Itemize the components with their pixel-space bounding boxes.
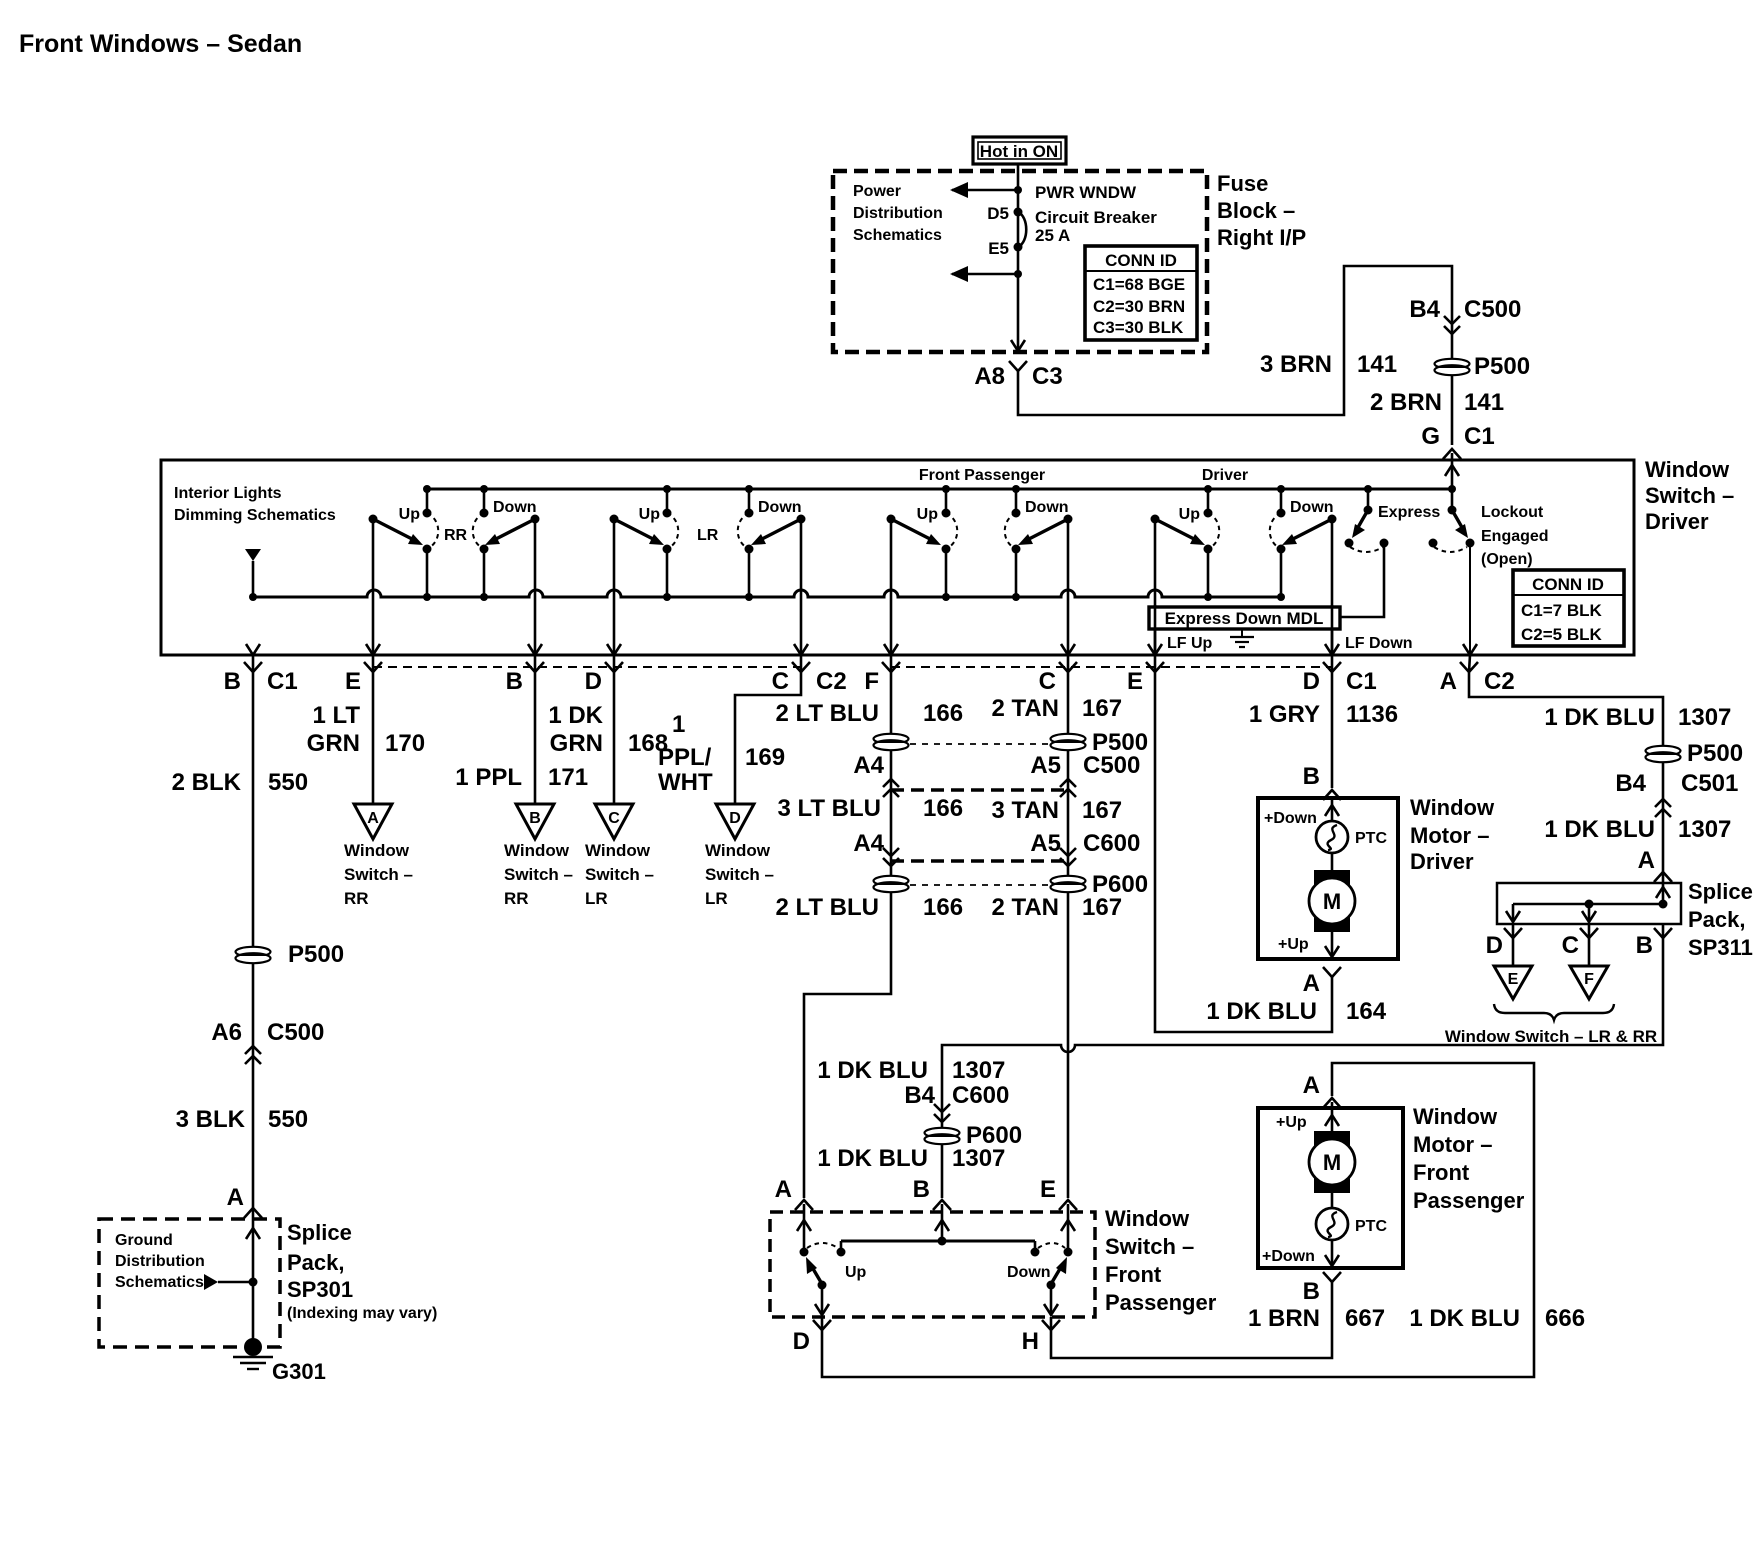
- svg-text:171: 171: [548, 764, 588, 791]
- switch Up front passenger: [812, 1267, 822, 1284]
- CONN ID box fuse block: [1085, 246, 1197, 340]
- svg-text:G301: G301: [272, 1359, 326, 1384]
- svg-text:C2: C2: [816, 668, 847, 695]
- svg-text:A5: A5: [1030, 752, 1061, 779]
- svg-text:3 LT BLU: 3 LT BLU: [777, 795, 881, 822]
- switch Driver Down: [1270, 489, 1337, 655]
- ground G301: [233, 1338, 326, 1384]
- svg-text:Window: Window: [1410, 795, 1495, 820]
- window switch driver box: [161, 460, 1634, 655]
- svg-text:PTC: PTC: [1355, 830, 1387, 847]
- svg-text:167: 167: [1082, 797, 1122, 824]
- inline connector P500 front passenger feed: [874, 734, 909, 750]
- svg-text:Interior Lights: Interior Lights: [174, 485, 282, 502]
- wire A8 C3 to fuse block right wire 3 BRN 141: [1018, 266, 1452, 445]
- svg-text:P500: P500: [1687, 740, 1743, 767]
- svg-text:Down: Down: [758, 499, 802, 516]
- svg-text:Window: Window: [504, 841, 570, 860]
- switch bus front passenger: [841, 1240, 1035, 1243]
- pin E driver: [1154, 655, 1157, 672]
- dimming feed triangle: [245, 549, 261, 561]
- svg-text:B4: B4: [1615, 770, 1646, 797]
- svg-text:Switch –: Switch –: [585, 865, 654, 884]
- svg-text:1: 1: [672, 711, 685, 738]
- switch Front Passenger Up: [887, 489, 958, 655]
- svg-text:C500: C500: [267, 1019, 324, 1046]
- splice pack SP311 internals: [1506, 887, 1670, 922]
- svg-text:C501: C501: [1681, 770, 1738, 797]
- svg-text:1 DK BLU: 1 DK BLU: [1409, 1305, 1520, 1332]
- svg-text:E: E: [1508, 971, 1519, 988]
- svg-text:Front Windows – Sedan: Front Windows – Sedan: [19, 30, 302, 58]
- svg-text:LR: LR: [705, 889, 728, 908]
- svg-text:C2=5 BLK: C2=5 BLK: [1521, 625, 1602, 644]
- svg-text:Driver: Driver: [1645, 509, 1709, 534]
- svg-text:B: B: [529, 810, 541, 827]
- svg-text:C: C: [608, 810, 620, 827]
- svg-text:M: M: [1323, 889, 1341, 914]
- svg-text:C2=30 BRN: C2=30 BRN: [1093, 297, 1185, 316]
- svg-text:PWR WNDW: PWR WNDW: [1035, 183, 1137, 202]
- svg-text:D: D: [793, 1328, 810, 1355]
- svg-text:CONN ID: CONN ID: [1105, 251, 1177, 270]
- svg-text:1 DK BLU: 1 DK BLU: [817, 1057, 928, 1084]
- svg-text:Down: Down: [1290, 499, 1334, 516]
- svg-text:C2: C2: [1484, 668, 1515, 695]
- inline connector P600 tan wire: [1051, 876, 1086, 892]
- svg-text:1 DK BLU: 1 DK BLU: [1544, 704, 1655, 731]
- svg-text:Circuit Breaker: Circuit Breaker: [1035, 208, 1157, 227]
- ground symbol under MDL: [1230, 629, 1254, 647]
- svg-text:167: 167: [1082, 894, 1122, 921]
- triangle A window switch RR: [354, 804, 392, 839]
- switch LR Down: [738, 489, 806, 655]
- svg-text:1 DK: 1 DK: [548, 702, 603, 729]
- svg-text:1307: 1307: [1678, 816, 1731, 843]
- svg-text:A4: A4: [853, 752, 884, 779]
- svg-text:GRN: GRN: [307, 730, 360, 757]
- svg-text:Up: Up: [399, 506, 421, 523]
- motor M driver: [1314, 870, 1350, 932]
- wire B C1 ground lead 2 BLK 550: [252, 672, 255, 1347]
- svg-text:2 TAN: 2 TAN: [991, 695, 1059, 722]
- svg-text:Window: Window: [705, 841, 771, 860]
- svg-text:C600: C600: [952, 1082, 1009, 1109]
- wire E to window switch RR A: [372, 672, 375, 804]
- svg-text:Passenger: Passenger: [1413, 1188, 1525, 1213]
- svg-text:1 LT: 1 LT: [312, 702, 360, 729]
- svg-text:1 PPL: 1 PPL: [455, 764, 522, 791]
- svg-text:M: M: [1323, 1150, 1341, 1175]
- ground distribution dashed box SP301: [99, 1219, 280, 1347]
- svg-text:D: D: [1486, 932, 1503, 959]
- CONN ID box driver switch: [1513, 570, 1624, 646]
- circuit breaker PWR WNDW 25A: [987, 183, 1157, 258]
- svg-text:Motor –: Motor –: [1410, 823, 1489, 848]
- svg-text:C1=68 BGE: C1=68 BGE: [1093, 275, 1185, 294]
- svg-text:B: B: [506, 668, 523, 695]
- svg-text:Distribution: Distribution: [853, 205, 943, 222]
- svg-text:Switch –: Switch –: [344, 865, 413, 884]
- pin C SP311: [1588, 924, 1591, 938]
- svg-text:141: 141: [1464, 389, 1504, 416]
- switch LR Up: [610, 489, 679, 655]
- svg-text:Ground: Ground: [115, 1232, 173, 1249]
- svg-text:Block –: Block –: [1217, 198, 1295, 223]
- svg-text:1 DK BLU: 1 DK BLU: [1544, 816, 1655, 843]
- svg-text:Switch –: Switch –: [1645, 483, 1734, 508]
- svg-text:F: F: [864, 668, 879, 695]
- svg-text:+Up: +Up: [1276, 1114, 1307, 1131]
- pin C: [1067, 655, 1070, 672]
- PTC driver motor: [1316, 821, 1348, 853]
- switch RR Up: [369, 489, 439, 655]
- window motor front passenger box: [1258, 1108, 1403, 1268]
- svg-text:Down: Down: [493, 499, 537, 516]
- inline connector P500 ground lead: [236, 947, 271, 963]
- svg-text:1307: 1307: [952, 1057, 1005, 1084]
- svg-text:2 TAN: 2 TAN: [991, 894, 1059, 921]
- pin D C1: [1331, 655, 1334, 672]
- pin A C2: [1469, 655, 1470, 672]
- svg-text:550: 550: [268, 1106, 308, 1133]
- pin D front passenger switch: [821, 1317, 824, 1330]
- svg-text:Distribution: Distribution: [115, 1253, 205, 1270]
- wire C C2 to window switch LR D 1 PPL/WHT 169: [735, 672, 801, 804]
- pin H front passenger switch: [1050, 1317, 1053, 1330]
- wire power feed from Hot in ON: [1017, 164, 1020, 349]
- pin D SP311: [1512, 924, 1515, 938]
- svg-text:F: F: [1584, 971, 1594, 988]
- svg-text:LR: LR: [697, 527, 719, 544]
- svg-text:C3: C3: [1032, 363, 1063, 390]
- svg-text:Splice: Splice: [287, 1220, 352, 1245]
- svg-text:Window: Window: [1105, 1206, 1190, 1231]
- motor M front passenger: [1314, 1131, 1350, 1193]
- svg-text:1 GRY: 1 GRY: [1249, 701, 1320, 728]
- inline connector P600 dk blu: [925, 1128, 960, 1144]
- svg-text:666: 666: [1545, 1305, 1585, 1332]
- wire D C1 to window motor driver B 1 GRY 1136: [1331, 672, 1334, 788]
- wire C to front passenger switch E 2 TAN 167: [1067, 672, 1070, 1198]
- svg-text:166: 166: [923, 700, 963, 727]
- svg-text:Front: Front: [1105, 1262, 1162, 1287]
- svg-text:P500: P500: [288, 941, 344, 968]
- triangle D window switch LR: [716, 804, 754, 839]
- pin E: [372, 655, 375, 672]
- svg-text:C: C: [1039, 668, 1056, 695]
- svg-text:Window: Window: [344, 841, 410, 860]
- svg-text:+Down: +Down: [1262, 1248, 1315, 1265]
- pin B motor front passenger: [1323, 1272, 1341, 1282]
- inline connector P500 main feed: [1435, 359, 1470, 375]
- svg-text:Driver: Driver: [1410, 849, 1474, 874]
- pin exit arrows at box bottom: [246, 644, 260, 655]
- PTC front passenger motor: [1316, 1208, 1348, 1240]
- svg-text:169: 169: [745, 744, 785, 771]
- wire arrow to power distribution top: [952, 189, 1018, 192]
- switch Front Passenger Down: [1005, 489, 1073, 655]
- svg-text:Up: Up: [845, 1264, 867, 1281]
- svg-text:+Down: +Down: [1264, 810, 1317, 827]
- svg-text:Front Passenger: Front Passenger: [919, 467, 1045, 484]
- Hot in ON box: [973, 137, 1066, 164]
- wire E driver to window motor driver A: [1155, 672, 1332, 1032]
- svg-text:3 BRN: 3 BRN: [1260, 351, 1332, 378]
- svg-text:C1: C1: [1346, 668, 1377, 695]
- switch Express: [1340, 489, 1440, 617]
- pin F: [890, 655, 893, 672]
- connector dashed line C1 group: [891, 666, 1332, 668]
- svg-text:Up: Up: [917, 506, 939, 523]
- switch RR Down: [473, 489, 540, 655]
- svg-text:Express: Express: [1378, 504, 1440, 521]
- svg-text:C1: C1: [1464, 423, 1495, 450]
- brace window switch LR and RR: [1494, 1004, 1614, 1020]
- inline connector P500 dk blu: [1646, 746, 1681, 762]
- svg-text:1136: 1136: [1346, 701, 1398, 728]
- arrow exit fuse block: [1011, 340, 1025, 351]
- svg-text:3 BLK: 3 BLK: [176, 1106, 246, 1133]
- svg-text:Lockout: Lockout: [1481, 504, 1544, 521]
- svg-text:PTC: PTC: [1355, 1218, 1387, 1235]
- svg-text:166: 166: [923, 894, 963, 921]
- svg-text:Dimming Schematics: Dimming Schematics: [174, 507, 336, 524]
- svg-text:Express Down MDL: Express Down MDL: [1165, 609, 1324, 628]
- switch Driver Up: [1151, 489, 1220, 655]
- svg-text:C1=7 BLK: C1=7 BLK: [1521, 601, 1602, 620]
- svg-text:Power: Power: [853, 183, 901, 200]
- svg-text:Down: Down: [1007, 1264, 1051, 1281]
- svg-text:2 LT BLU: 2 LT BLU: [775, 700, 879, 727]
- svg-text:Motor –: Motor –: [1413, 1132, 1492, 1157]
- svg-text:Passenger: Passenger: [1105, 1290, 1217, 1315]
- svg-text:1307: 1307: [952, 1145, 1005, 1172]
- svg-text:D: D: [1303, 668, 1320, 695]
- wire H to window motor front passenger B 1 BRN 667: [1051, 1282, 1332, 1358]
- wire B to window switch RR B 1 PPL 171: [534, 672, 537, 804]
- svg-text:RR: RR: [444, 527, 468, 544]
- top power bus: [427, 488, 1452, 491]
- Express Down MDL module box: [1149, 607, 1340, 629]
- switch Lockout Engaged (Open): [1429, 489, 1549, 655]
- svg-text:B: B: [1303, 1278, 1320, 1305]
- svg-text:E5: E5: [988, 239, 1009, 258]
- wire LF Down through MDL: [1331, 605, 1334, 655]
- svg-text:B: B: [1636, 932, 1653, 959]
- svg-text:1 BRN: 1 BRN: [1248, 1305, 1320, 1332]
- svg-text:Switch –: Switch –: [705, 865, 774, 884]
- svg-text:164: 164: [1346, 998, 1387, 1025]
- svg-text:Engaged: Engaged: [1481, 528, 1549, 545]
- pin C C2: [800, 655, 803, 672]
- svg-text:B: B: [224, 668, 241, 695]
- triangle C window switch LR: [595, 804, 633, 839]
- svg-text:A: A: [227, 1184, 244, 1211]
- switch Down front passenger: [1051, 1267, 1061, 1284]
- svg-text:Right I/P: Right I/P: [1217, 225, 1306, 250]
- svg-text:C: C: [772, 668, 789, 695]
- connector dashed line C2 group: [373, 666, 801, 668]
- svg-text:C: C: [1562, 932, 1579, 959]
- svg-text:Switch –: Switch –: [1105, 1234, 1194, 1259]
- svg-text:Window Switch – LR & RR: Window Switch – LR & RR: [1445, 1027, 1657, 1046]
- svg-text:Switch –: Switch –: [504, 865, 573, 884]
- svg-text:C600: C600: [1083, 830, 1140, 857]
- svg-text:167: 167: [1082, 695, 1122, 722]
- splice pack SP311 box: [1497, 883, 1681, 924]
- svg-text:A6: A6: [211, 1019, 242, 1046]
- svg-text:GRN: GRN: [550, 730, 603, 757]
- svg-text:141: 141: [1357, 351, 1397, 378]
- svg-text:PPL/: PPL/: [658, 744, 712, 771]
- svg-text:Up: Up: [639, 506, 661, 523]
- svg-text:170: 170: [385, 730, 425, 757]
- svg-text:Fuse: Fuse: [1217, 171, 1268, 196]
- motor driver internals: [1264, 798, 1387, 957]
- svg-text:2 BRN: 2 BRN: [1370, 389, 1442, 416]
- svg-text:Up: Up: [1179, 506, 1201, 523]
- svg-text:A: A: [1440, 668, 1457, 695]
- svg-text:550: 550: [268, 769, 308, 796]
- svg-text:2 BLK: 2 BLK: [172, 769, 242, 796]
- svg-text:CONN ID: CONN ID: [1532, 575, 1604, 594]
- svg-text:C500: C500: [1464, 296, 1521, 323]
- svg-text:1307: 1307: [1678, 704, 1731, 731]
- svg-text:A: A: [367, 810, 379, 827]
- wire A C2 to splice pack SP311: [1469, 672, 1663, 904]
- svg-text:D5: D5: [987, 204, 1009, 223]
- svg-text:Pack,: Pack,: [287, 1250, 345, 1275]
- svg-text:Window: Window: [1645, 457, 1730, 482]
- svg-text:A8: A8: [974, 363, 1005, 390]
- arrow ground distribution tap: [204, 1274, 218, 1290]
- svg-text:SP301: SP301: [287, 1277, 353, 1302]
- svg-text:B: B: [1303, 763, 1320, 790]
- triangle E window switch LR RR: [1512, 938, 1515, 966]
- lower common bus with hops: [253, 590, 1281, 597]
- wire D to window switch LR C 1 DK GRN 168: [613, 672, 616, 804]
- svg-text:C3=30 BLK: C3=30 BLK: [1093, 318, 1184, 337]
- svg-text:B: B: [913, 1176, 930, 1203]
- svg-text:(Open): (Open): [1481, 551, 1533, 568]
- pin B C1: [252, 655, 255, 672]
- triangle F window switch LR RR: [1588, 938, 1591, 966]
- svg-text:SP311: SP311: [1688, 935, 1753, 960]
- svg-text:(Indexing may vary): (Indexing may vary): [287, 1305, 437, 1322]
- svg-text:Schematics: Schematics: [115, 1274, 204, 1291]
- wire D to window motor front passenger A 1 DK BLU 666: [822, 1063, 1534, 1377]
- svg-text:Splice: Splice: [1688, 879, 1753, 904]
- front passenger switch internals: [797, 1204, 1075, 1315]
- triangle B window switch RR: [516, 804, 554, 839]
- svg-text:RR: RR: [344, 889, 369, 908]
- svg-text:Schematics: Schematics: [853, 227, 942, 244]
- svg-text:C1: C1: [267, 668, 298, 695]
- wire LF Up through MDL: [1154, 605, 1157, 655]
- svg-text:166: 166: [923, 795, 963, 822]
- svg-text:Front: Front: [1413, 1160, 1470, 1185]
- svg-text:A: A: [1638, 847, 1655, 874]
- svg-text:B4: B4: [1409, 296, 1440, 323]
- svg-text:LR: LR: [585, 889, 608, 908]
- svg-text:P500: P500: [1474, 353, 1530, 380]
- svg-text:H: H: [1022, 1328, 1039, 1355]
- svg-text:Hot in ON: Hot in ON: [980, 142, 1058, 161]
- pin B SP311: [1662, 924, 1665, 938]
- svg-text:E: E: [345, 668, 361, 695]
- svg-text:D: D: [729, 810, 741, 827]
- svg-text:A4: A4: [853, 830, 884, 857]
- svg-text:Window: Window: [1413, 1104, 1498, 1129]
- svg-text:RR: RR: [504, 889, 529, 908]
- svg-text:A: A: [775, 1176, 792, 1203]
- svg-text:A: A: [1303, 970, 1320, 997]
- svg-text:C500: C500: [1083, 752, 1140, 779]
- svg-text:LF Up: LF Up: [1167, 635, 1213, 652]
- svg-text:E: E: [1127, 668, 1143, 695]
- connector A8 C3: [1009, 361, 1027, 371]
- inline connector P600 front passenger feed: [874, 876, 909, 892]
- svg-text:LF Down: LF Down: [1345, 635, 1413, 652]
- svg-text:1 DK BLU: 1 DK BLU: [1206, 998, 1317, 1025]
- svg-text:B4: B4: [904, 1082, 935, 1109]
- window switch front passenger dashed box: [770, 1212, 1095, 1317]
- pin D: [613, 655, 616, 672]
- window motor driver box: [1258, 798, 1398, 959]
- svg-text:Down: Down: [1025, 499, 1069, 516]
- pin A motor driver: [1323, 967, 1341, 977]
- svg-text:D: D: [585, 668, 602, 695]
- svg-text:A: A: [1303, 1072, 1320, 1099]
- svg-text:WHT: WHT: [658, 769, 713, 796]
- pin B: [534, 655, 537, 672]
- svg-text:G: G: [1421, 423, 1440, 450]
- svg-text:1 DK BLU: 1 DK BLU: [817, 1145, 928, 1172]
- svg-text:25 A: 25 A: [1035, 226, 1070, 245]
- motor front passenger internals: [1262, 1102, 1387, 1266]
- svg-text:Driver: Driver: [1202, 467, 1248, 484]
- inline connector P500 tan wire: [1051, 734, 1086, 750]
- svg-text:Pack,: Pack,: [1688, 907, 1746, 932]
- svg-text:3 TAN: 3 TAN: [991, 797, 1059, 824]
- svg-text:E: E: [1040, 1176, 1056, 1203]
- wire F to front passenger switch A: [804, 672, 891, 1198]
- wire SP311 B to front passenger switch B: [942, 938, 1663, 1198]
- svg-text:A5: A5: [1030, 830, 1061, 857]
- svg-text:+Up: +Up: [1278, 936, 1309, 953]
- svg-text:Window: Window: [585, 841, 651, 860]
- svg-text:2 LT BLU: 2 LT BLU: [775, 894, 879, 921]
- fuse block dashed box: [833, 171, 1207, 352]
- wire arrow to power distribution bottom: [952, 273, 1018, 276]
- svg-text:667: 667: [1345, 1305, 1385, 1332]
